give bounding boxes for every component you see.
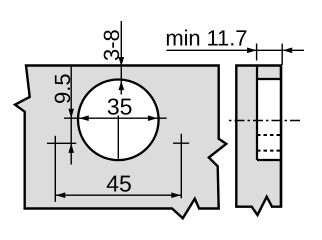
extension line left (pocket wall) xyxy=(256,44,258,61)
svg-text:3-8: 3-8 xyxy=(99,29,124,61)
circle vertical centerline lower part xyxy=(117,116,119,159)
arrow left at circle left edge xyxy=(79,115,89,121)
svg-text:45: 45 xyxy=(106,170,132,196)
arrow left end 45 xyxy=(56,192,66,198)
side view right edge redraw xyxy=(280,66,282,207)
screw hole cross left vertical / 45 extension left xyxy=(54,136,56,202)
screw hole cross left horizontal xyxy=(47,142,76,144)
screw hole cross right horizontal xyxy=(173,142,189,144)
hidden dashed line upper xyxy=(257,134,280,136)
cup hole circle 35 xyxy=(78,80,159,161)
arrow up at circle top xyxy=(119,81,125,91)
arrow down at cup centerline xyxy=(68,109,74,119)
screw hole cross right vertical / 45 extension right xyxy=(180,134,182,199)
arrow down at panel top edge xyxy=(119,57,125,67)
dimension 9.5 vertical line xyxy=(70,66,72,165)
hidden dashed line lower xyxy=(257,150,280,152)
door side view xyxy=(236,66,281,216)
svg-text:min 11.7: min 11.7 xyxy=(165,25,247,50)
arrow up at screw hole line xyxy=(68,143,74,153)
arrow right end 45 xyxy=(171,192,181,198)
extension line right (door face) xyxy=(281,44,283,66)
door panel front view xyxy=(15,66,226,219)
dimension 45 line xyxy=(55,194,181,196)
dimension min 11.7 line xyxy=(167,49,305,51)
dimension 35 horizontal line xyxy=(64,117,167,119)
cup pocket in side view xyxy=(258,80,280,159)
cup centerline dash-dot xyxy=(228,120,300,122)
dimension 3-8 vertical line xyxy=(120,21,122,95)
arrow left pointing at right extension xyxy=(283,48,293,54)
svg-text:9.5: 9.5 xyxy=(50,73,75,104)
arrow right at circle right edge xyxy=(148,115,158,121)
arrow right pointing at left extension xyxy=(247,48,257,54)
svg-text:35: 35 xyxy=(107,93,133,119)
